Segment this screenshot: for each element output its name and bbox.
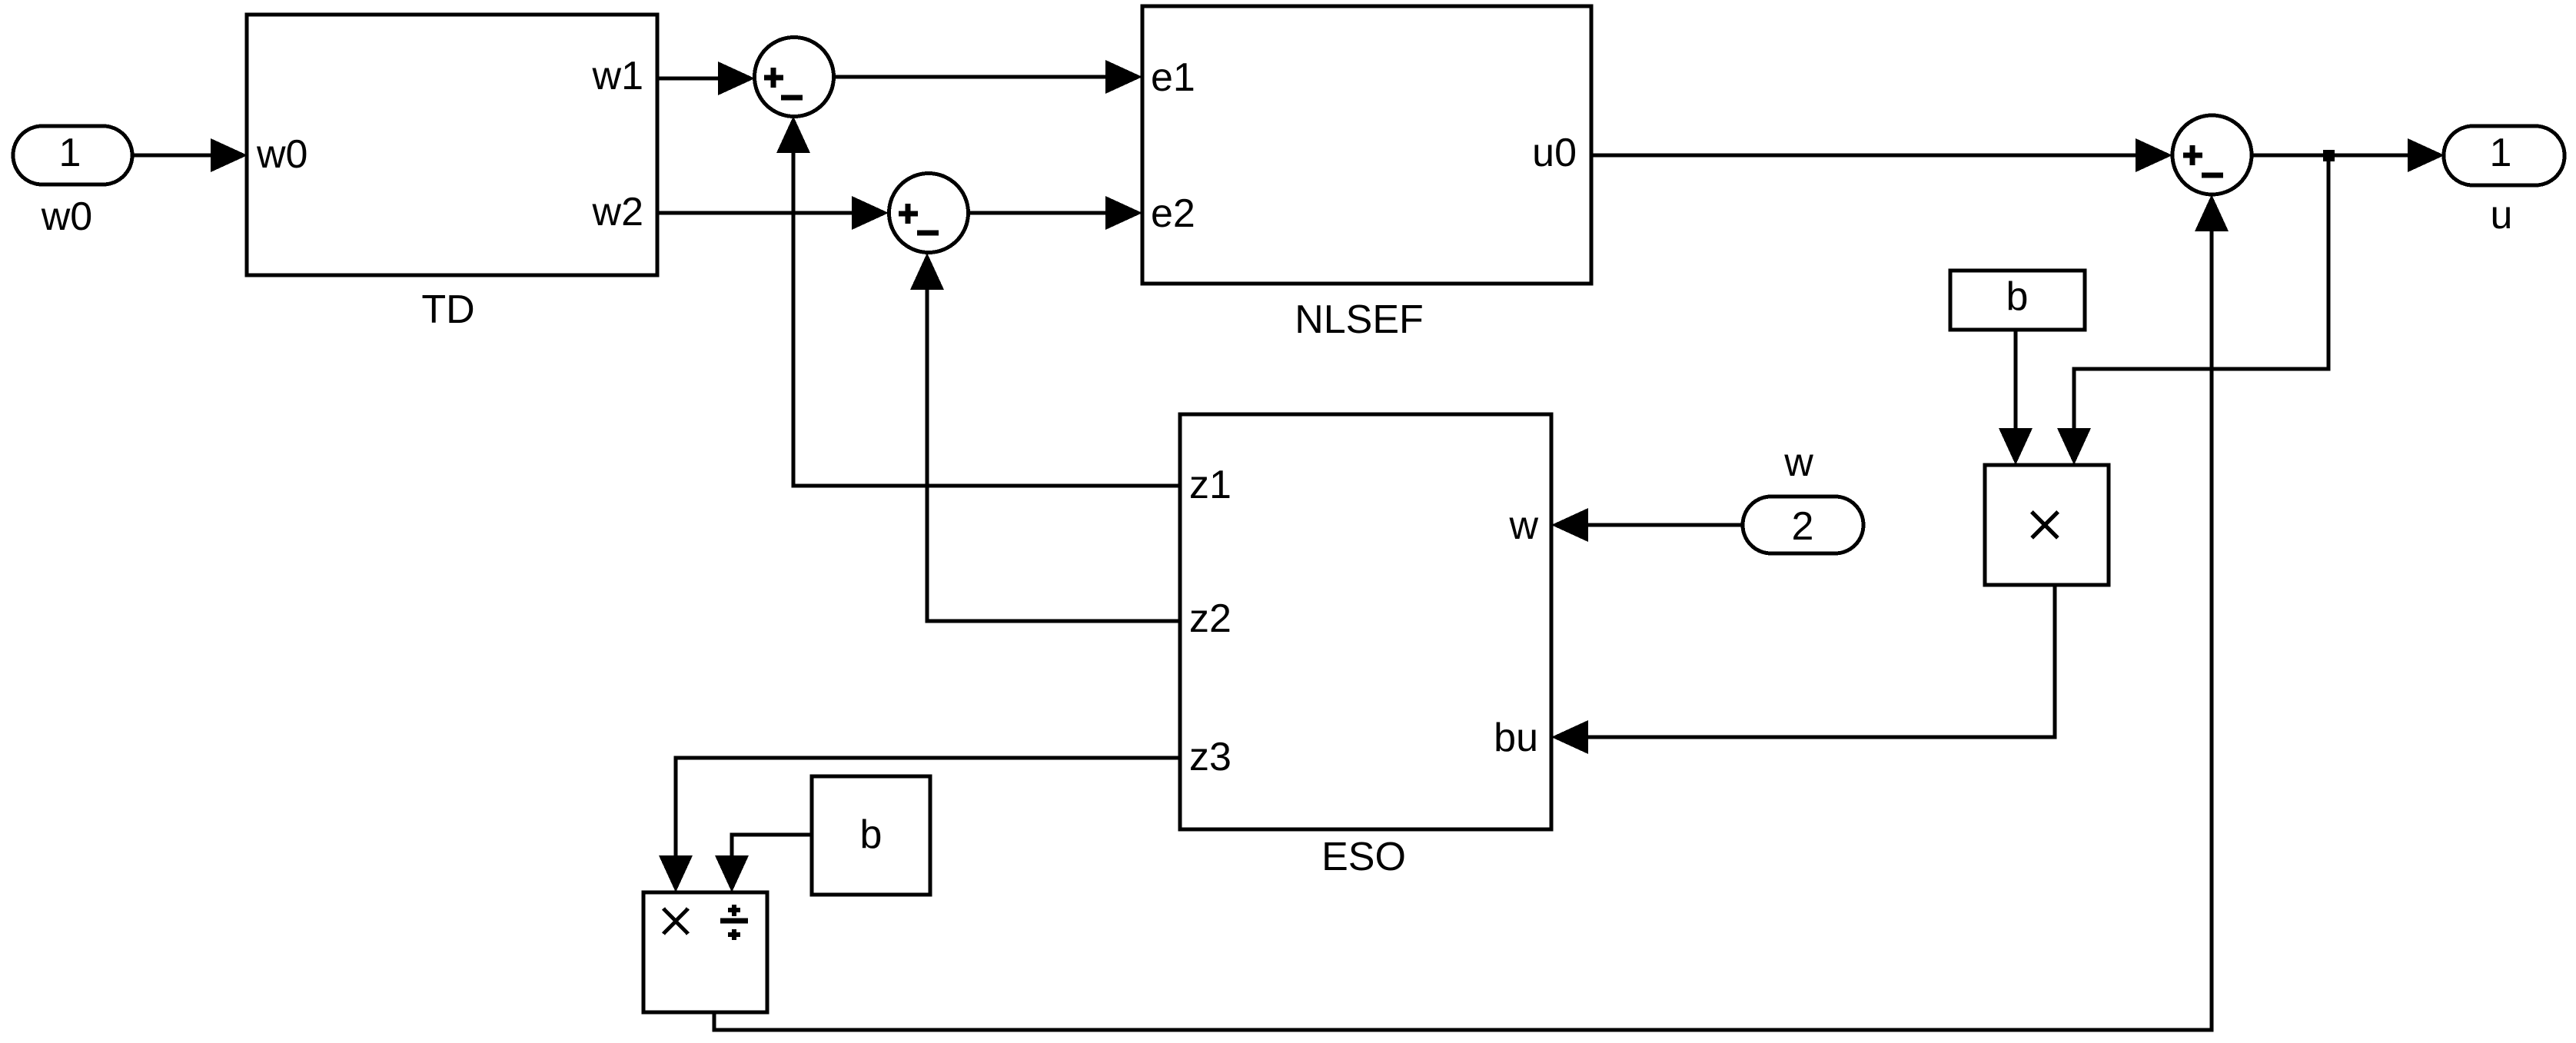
svg-text:TD: TD <box>421 287 474 332</box>
wire: product output to ESO.bu <box>1585 585 2055 737</box>
sum circle 2 <box>889 174 969 253</box>
arrowhead into NLSEF.e1 <box>1105 60 1142 94</box>
svg-text:w2: w2 <box>592 190 643 234</box>
divide symbol bottom plus <box>728 929 740 940</box>
wire: sum2 to NLSEF.e2 <box>968 211 1109 215</box>
svg-text:z2: z2 <box>1189 596 1231 641</box>
block TD <box>247 15 657 275</box>
arrowhead into TD.w0 <box>211 138 248 172</box>
arrowhead into ESO.w (left) <box>1551 508 1588 542</box>
svg-text:w1: w1 <box>592 54 643 98</box>
svg-text:w: w <box>1783 440 1813 485</box>
sum signs <box>663 68 2223 940</box>
product X symbol <box>2032 512 2058 538</box>
arrowhead into ESO.bu (left) <box>1551 720 1588 754</box>
sum1 minus <box>781 95 803 101</box>
wire: ESO.z3 to divide input 1 <box>676 758 1180 859</box>
divide block X symbol <box>663 908 688 934</box>
arrowhead into sum3 left <box>2136 138 2172 172</box>
wire: NLSEF.u0 to sum3 <box>1591 154 2139 158</box>
svg-text:w0: w0 <box>41 194 92 239</box>
svg-text:e2: e2 <box>1151 191 1195 236</box>
arrowhead into sum2 bottom (up) <box>910 253 944 290</box>
wire: b2 to divide input 2 <box>732 835 812 859</box>
arrowhead into sum3 bottom (up) <box>2195 194 2229 231</box>
svg-text:ESO: ESO <box>1321 835 1406 879</box>
sum circle 3 <box>2172 115 2252 194</box>
block product (multiply) <box>1985 465 2109 585</box>
svg-text:b: b <box>860 812 882 857</box>
wire: divide output to sum3 bottom <box>714 228 2212 1030</box>
divide symbol top plus <box>728 905 740 916</box>
junction dot <box>2323 150 2335 161</box>
arrowhead into sum1 bottom (up) <box>776 116 810 153</box>
sum3 minus <box>2202 173 2223 178</box>
svg-text:u: u <box>2491 193 2513 237</box>
sum1 plus <box>764 68 783 88</box>
arrowhead into product input 2 (down) <box>2057 428 2091 465</box>
outport oval 1 (u) <box>2444 126 2564 185</box>
svg-text:1: 1 <box>2490 131 2512 175</box>
arrowhead into sum1 left <box>718 61 755 95</box>
inport oval 1 (w0) <box>13 126 132 184</box>
svg-text:w: w <box>1508 503 1538 548</box>
wire: TD.w2 to sum2 <box>657 211 855 215</box>
sum2 minus <box>917 231 939 236</box>
wire: sum1 to NLSEF.e1 <box>833 75 1109 79</box>
block NLSEF <box>1142 6 1591 284</box>
wire: sum3 to outport <box>2252 154 2411 158</box>
sum circle 1 <box>755 38 834 117</box>
wire: inport1 to TD.w0 <box>132 154 214 158</box>
arrowhead into product input 1 (down) <box>1999 428 2033 465</box>
wire: inport2 to ESO.w <box>1585 523 1743 527</box>
svg-text:z1: z1 <box>1189 463 1231 507</box>
arrowhead into NLSEF.e2 <box>1105 196 1142 230</box>
divide block divide symbol bar <box>720 918 748 924</box>
block b (bottom constant) <box>812 776 930 895</box>
block divide <box>643 892 767 1012</box>
sum2 plus <box>899 204 918 224</box>
block b (top right constant) <box>1950 271 2085 330</box>
svg-text:1: 1 <box>59 131 81 175</box>
sum3 plus <box>2183 145 2202 165</box>
wire: b1 to product input 1 <box>2014 330 2018 431</box>
block ESO <box>1180 414 1551 829</box>
svg-text:w0: w0 <box>256 132 307 177</box>
svg-text:z3: z3 <box>1189 735 1231 779</box>
svg-text:2: 2 <box>1792 504 1814 549</box>
wire: ESO.z1 to sum1 bottom <box>793 150 1180 486</box>
wire: TD.w1 to sum1 <box>657 77 721 81</box>
arrowhead into divide input 2 (down) <box>715 855 749 892</box>
arrowhead into sum2 left <box>852 196 889 230</box>
wire: ESO.z2 to sum2 bottom <box>927 287 1180 621</box>
svg-text:u0: u0 <box>1532 131 1577 175</box>
svg-text:e1: e1 <box>1151 55 1195 100</box>
wire: junction down-left to product input 2 <box>2074 155 2328 431</box>
arrowhead into outport <box>2408 138 2445 172</box>
arrowhead into divide input 1 (down) <box>659 855 693 892</box>
svg-text:NLSEF: NLSEF <box>1295 297 1424 342</box>
svg-text:b: b <box>2006 274 2029 319</box>
svg-text:bu: bu <box>1494 716 1538 760</box>
inport oval 2 (w) <box>1743 497 1863 553</box>
